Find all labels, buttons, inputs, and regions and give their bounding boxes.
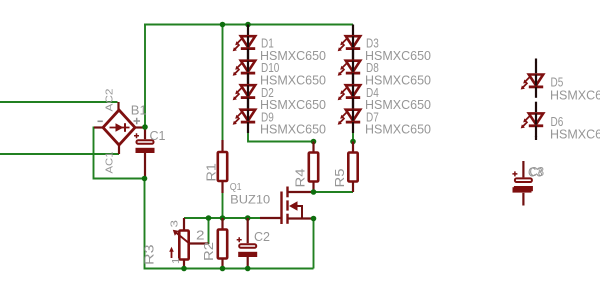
svg-text:R3: R3: [143, 244, 157, 265]
bridge rectifier B1: [94, 102, 145, 154]
svg-text:HSMXC650: HSMXC650: [260, 74, 326, 88]
wire ground left vertical: [145, 179, 314, 269]
junction rail R1: [220, 22, 226, 28]
wire plus rail vertical: [144, 25, 146, 128]
svg-text:R1: R1: [205, 163, 219, 181]
svg-text:HSMXC650: HSMXC650: [550, 88, 600, 102]
svg-text:R4: R4: [294, 168, 308, 187]
LED D8: [338, 49, 361, 84]
junction chain1 R4: [311, 139, 317, 145]
capacitor C1: [134, 127, 155, 179]
LED D3: [338, 25, 361, 60]
LED D7: [338, 98, 361, 133]
label bridge minus: [98, 120, 103, 122]
LED D10: [233, 49, 256, 84]
wire rail to R1: [222, 25, 224, 142]
wire wiper riser: [208, 218, 210, 244]
svg-text:C2: C2: [254, 230, 270, 244]
svg-text:HSMXC650: HSMXC650: [365, 123, 431, 137]
resistor R2: [218, 218, 227, 269]
svg-text:R2: R2: [202, 242, 216, 261]
junction source: [311, 216, 317, 222]
svg-text:Q1: Q1: [230, 181, 242, 193]
svg-text:2: 2: [196, 229, 205, 243]
LED D4: [338, 74, 361, 109]
svg-text:HSMXC650: HSMXC650: [365, 74, 431, 88]
wire AC input bottom: [0, 153, 119, 155]
junction gate C2: [245, 215, 251, 221]
junction bridge plus: [142, 124, 148, 130]
junction drain R4: [311, 189, 317, 195]
wire chain2 bottom stub: [352, 133, 354, 142]
junction gate wiper: [206, 215, 212, 221]
LED D2: [233, 74, 256, 109]
resistor R4: [309, 142, 318, 193]
junction ground pot: [181, 266, 187, 272]
resistor R1: [218, 140, 227, 193]
svg-text:HSMXC650: HSMXC650: [365, 49, 431, 63]
junction rail chain1: [245, 22, 251, 28]
wire R1 bottom to gate rail: [222, 193, 224, 218]
LED D1: [233, 25, 256, 60]
svg-text:HSMXC650: HSMXC650: [260, 123, 326, 137]
resistor R5: [348, 142, 357, 193]
junction ground C2: [245, 266, 251, 272]
svg-text:R5: R5: [333, 168, 347, 187]
label bridge plus: [134, 118, 141, 125]
svg-text:HSMXC650: HSMXC650: [260, 98, 326, 112]
svg-text:BUZ10: BUZ10: [230, 193, 270, 207]
transistor Q1 BUZ10: [260, 187, 314, 225]
junction chain2 R5: [350, 139, 356, 145]
LED D6: [521, 102, 544, 140]
svg-text:B1: B1: [131, 102, 147, 117]
wire AC input top: [0, 101, 118, 103]
LED D5: [521, 59, 544, 98]
junction C1 bottom: [142, 176, 148, 182]
capacitor C3: [512, 161, 533, 206]
junction gate R1 R2: [220, 215, 226, 221]
wire bridge minus down: [94, 127, 145, 179]
svg-text:3: 3: [169, 220, 181, 228]
svg-text:AC2: AC2: [105, 88, 116, 112]
svg-text:AC1: AC1: [105, 151, 116, 173]
wire source down: [313, 219, 315, 269]
svg-text:HSMXC650: HSMXC650: [365, 98, 431, 112]
potentiometer R3: [169, 218, 208, 269]
svg-text:HSMXC650: HSMXC650: [260, 49, 326, 63]
wire chain1 bottom: [248, 133, 314, 142]
LED D9: [233, 98, 256, 133]
junction ground R2: [220, 266, 226, 272]
wire gate rail: [184, 217, 260, 219]
wire drain to R5: [314, 191, 354, 193]
capacitor C2: [237, 218, 258, 269]
svg-text:C1: C1: [150, 129, 166, 143]
svg-text:C8: C8: [530, 165, 545, 179]
svg-text:1: 1: [170, 257, 182, 264]
wire plus top rail: [144, 24, 353, 26]
svg-text:HSMXC650: HSMXC650: [550, 128, 600, 142]
